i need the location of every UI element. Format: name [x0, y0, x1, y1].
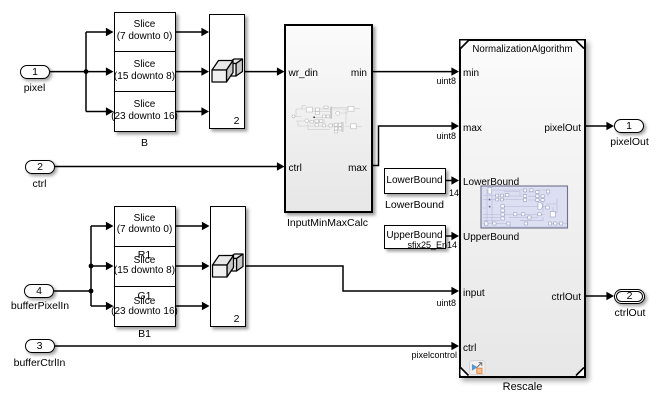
constant UpperBound — [384, 225, 446, 250]
wire branch vertical (pixel) — [85, 32, 87, 112]
wire branch to slice R1 — [91, 225, 107, 227]
caption bufferCtrlIn — [14, 357, 66, 369]
junction dot bufferPixelIn branch 1 — [89, 264, 94, 269]
port label max (Rescale) — [463, 123, 482, 134]
slice G text — [134, 59, 156, 70]
caption ctrl — [33, 178, 47, 190]
signal label uint8 (max) — [436, 131, 456, 141]
arrowhead input Rescale — [451, 287, 459, 295]
wire Rescale to ctrlOut — [586, 295, 608, 297]
signal label 14 (LowerBound) — [449, 188, 459, 198]
slice R1 text — [134, 213, 156, 224]
wire max to Rescale — [373, 126, 453, 166]
slice divider 2 — [114, 91, 175, 92]
slice stack B (blocks R,G,B) — [114, 12, 177, 133]
arrowhead ctrl Rescale — [451, 342, 459, 350]
port label UpperBound (Rescale) — [463, 232, 519, 243]
arrowhead ctrlOut — [606, 292, 614, 300]
subsystem InputMinMaxCalc — [284, 24, 373, 213]
arrowhead concat2 in 3 — [202, 302, 210, 310]
wire slice G1 to concat2 — [176, 265, 204, 267]
signal label sfix25_En14 (UpperBound) — [407, 240, 457, 250]
slice B text — [134, 99, 156, 110]
wire concat2 to input — [246, 266, 453, 291]
port label max (InputMinMaxCalc) — [348, 163, 367, 174]
caption G1 (overlapping) — [137, 290, 151, 302]
LowerBound value text — [386, 175, 442, 186]
caption B — [141, 137, 148, 149]
inport 4 bufferPixelIn — [24, 284, 54, 298]
caption LowerBound — [385, 199, 444, 211]
caption InputMinMaxCalc — [287, 217, 368, 229]
port label wr_din — [289, 68, 318, 79]
wire LowerBound to Rescale — [446, 180, 453, 182]
arrowhead concat in 2 — [201, 67, 209, 75]
concat icon (bottom) — [213, 254, 244, 277]
arrowhead concat2 in 2 — [202, 262, 210, 270]
wire min to Rescale — [373, 71, 453, 73]
arrowhead LowerBound Rescale — [451, 176, 459, 184]
wire slice R to concat — [176, 31, 204, 33]
inport 2 ctrl — [25, 160, 55, 174]
arrowhead concat in 1 — [201, 28, 209, 36]
signal label uint8 (min) — [436, 76, 456, 86]
slice stack B1 (blocks R1,G1,B1) — [114, 206, 177, 327]
wire slice B to concat — [176, 111, 204, 113]
wire slice B1 to concat2 — [176, 305, 204, 307]
signal label uint8 (input) — [436, 298, 456, 308]
port label min (InputMinMaxCalc) — [351, 68, 367, 79]
wire branch to slice R — [86, 31, 107, 33]
caption ctrlOut — [615, 307, 646, 319]
inport 1 pixel — [20, 65, 50, 79]
arrowhead UpperBound Rescale — [451, 232, 459, 240]
arrowhead slice G in — [106, 67, 114, 75]
constant LowerBound — [384, 168, 446, 194]
wire slice G to concat — [176, 71, 204, 73]
concat block 2 (top) — [209, 14, 245, 129]
arrowhead slice R1 in — [106, 222, 114, 230]
caption pixel — [24, 82, 46, 94]
arrowhead slice B in — [106, 107, 114, 115]
corner chamfer BR (Rescale) — [576, 368, 584, 376]
signal label pixelcontrol — [411, 350, 457, 360]
wire bufferCtrlIn to ctrl — [55, 345, 452, 347]
content preview Rescale — [481, 186, 568, 228]
port label input (Rescale) — [463, 288, 485, 299]
arrowhead slice B1 in — [106, 302, 114, 310]
arrowhead ctrl InputMinMaxCalc — [277, 162, 285, 170]
caption B1 — [138, 328, 151, 340]
corner chamfer TR (Rescale) — [576, 41, 584, 49]
corner chamfer BL (Rescale) — [461, 368, 469, 376]
concat block 2 (bottom) — [210, 206, 246, 328]
content preview InputMinMaxCalc — [294, 106, 362, 132]
wire branch to slice G1 — [91, 265, 107, 267]
wire branch to slice B1 — [91, 305, 107, 307]
port label pixelOut (Rescale) — [544, 123, 581, 134]
arrowhead concat in 3 — [201, 107, 209, 115]
slice B1 text — [134, 296, 156, 307]
junction dot bufferPixelIn branch 2 — [89, 289, 94, 294]
arrowhead concat2 in 1 — [202, 222, 210, 230]
model block Rescale (NormalizationAlgorithm) — [459, 39, 587, 378]
port label min (Rescale) — [463, 68, 479, 79]
port label ctrl (InputMinMaxCalc) — [289, 163, 302, 174]
outport 2 ctrlOut (double ring) — [614, 289, 645, 304]
arrowhead slice R in — [106, 28, 114, 36]
wire bufferPixelIn to branch — [54, 290, 91, 292]
title NormalizationAlgorithm — [472, 44, 572, 55]
wire concat to wr_din — [245, 71, 278, 73]
caption bufferPixelIn — [11, 300, 69, 312]
wire branch to slice G — [86, 71, 107, 73]
wire UpperBound to Rescale — [446, 235, 453, 237]
wire Rescale to pixelOut — [586, 125, 608, 127]
inport 3 bufferCtrlIn — [25, 339, 55, 353]
arrowhead wr_din — [277, 67, 285, 75]
arrowhead pixelOut — [606, 122, 614, 130]
caption Rescale — [503, 381, 543, 393]
outport 1 pixelOut — [614, 119, 644, 133]
wire branch to slice B — [86, 111, 107, 113]
arrowhead min Rescale — [451, 67, 459, 75]
arrowhead max Rescale — [451, 122, 459, 130]
slice R text — [134, 19, 156, 30]
port label LowerBound (Rescale) — [463, 177, 519, 188]
wire branch vertical (bufferPixelIn) — [90, 226, 92, 306]
slice divider 4 — [114, 286, 175, 287]
slice G1 text — [134, 255, 156, 266]
caption pixelOut — [610, 136, 649, 148]
wire slice R1 to concat2 — [176, 225, 204, 227]
concat 2 (bottom) number — [234, 313, 240, 325]
slice divider 1 — [114, 51, 175, 52]
arrowhead slice G1 in — [106, 262, 114, 270]
caption R1 (overlapping) — [138, 249, 151, 261]
UpperBound value text — [386, 230, 442, 241]
wire ctrl to InputMinMaxCalc — [55, 166, 278, 168]
junction dot pixel branch — [84, 69, 89, 74]
corner chamfer TL (Rescale) — [461, 41, 469, 49]
port label ctrlOut (Rescale) — [552, 292, 581, 303]
port label ctrl (Rescale) — [463, 343, 476, 354]
concat icon (top) — [212, 59, 243, 82]
concat 2 (top) number — [234, 115, 240, 127]
wire pixel to branch — [50, 71, 86, 73]
slice divider 3 — [114, 246, 175, 247]
badge icon (Rescale bottom-left) — [470, 361, 486, 375]
